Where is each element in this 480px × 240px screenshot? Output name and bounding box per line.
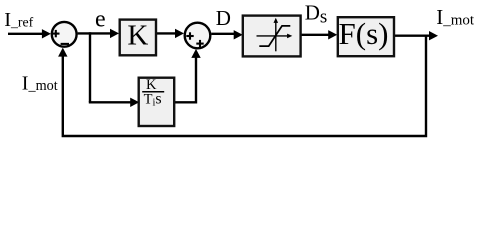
svg-text:D: D — [216, 6, 231, 30]
svg-text:F(s): F(s) — [339, 16, 389, 51]
svg-text:K: K — [127, 19, 148, 51]
svg-text:e: e — [95, 7, 106, 33]
